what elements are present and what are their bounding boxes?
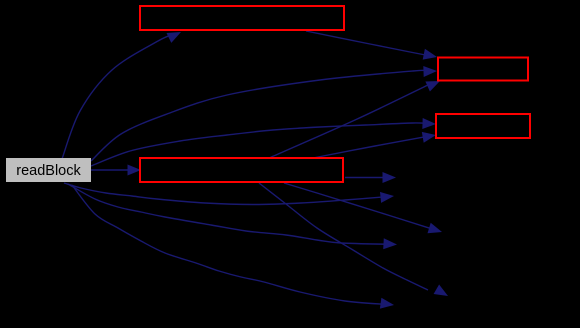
wire middle box to right box 1 (269, 85, 429, 159)
arrowhead top box into right box 1 (423, 49, 437, 60)
arrowhead into middle box (128, 165, 142, 176)
arrowhead hidden node 4 (383, 172, 397, 183)
arrowhead middle box into right box 1 (425, 81, 440, 92)
svg-text:readBlock: readBlock (16, 163, 81, 179)
wire readBlock to hidden node 2 (68, 184, 390, 244)
wire readBlock to right box 1 (91, 70, 431, 161)
wire middle box to hidden node 4 (345, 177, 390, 179)
top box (140, 6, 344, 30)
arrowhead hidden node 3 (380, 298, 394, 309)
middle box (140, 158, 343, 182)
arrowhead hidden node 1 (380, 192, 394, 203)
wire readBlock to middle box (91, 169, 135, 171)
right box 1 (438, 58, 528, 81)
arrowhead hidden node 2 (383, 238, 397, 249)
arrowhead readBlock into right box 1 (423, 66, 437, 77)
wire readBlock to right box 2 (91, 123, 430, 166)
wire middle box to right box 2 (313, 137, 425, 158)
wire readBlock to hidden node 1 (64, 183, 388, 205)
right box 2 (436, 114, 530, 138)
arrowhead hidden node 6 (434, 285, 448, 297)
wire middle box to hidden node 6 (259, 183, 428, 290)
arrowhead hidden node 5 (428, 223, 443, 234)
wire middle box to hidden node 5 (284, 183, 430, 228)
wire readBlock to top box (62, 34, 176, 160)
wire top box to right box 1 (306, 31, 428, 56)
wire readBlock to hidden node 3 (72, 185, 386, 304)
arrowhead readBlock into right box 2 (422, 118, 436, 129)
arrowhead into top box (167, 32, 182, 43)
node readBlock (6, 158, 91, 182)
arrowhead middle box into right box 2 (422, 132, 436, 143)
